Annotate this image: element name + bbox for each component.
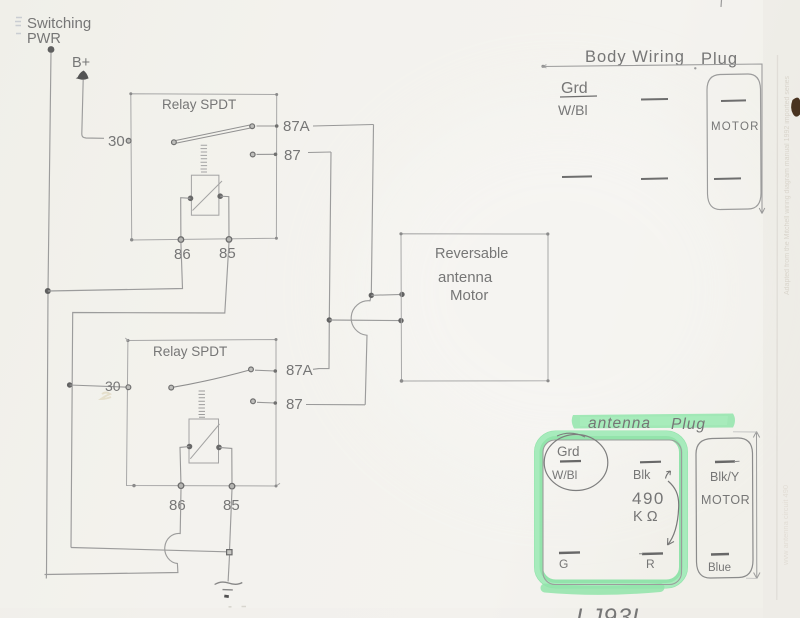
scan artifact: faint rotated text right margin bbox=[784, 75, 791, 295]
wire: stub B to motor box bbox=[371, 293, 402, 296]
relay2 pin 85 bbox=[229, 483, 235, 489]
relay2 coil box bbox=[189, 419, 219, 463]
svg-text:B+: B+ bbox=[72, 55, 90, 71]
pin dash G bbox=[559, 551, 580, 554]
svg-text:Blk/Y: Blk/Y bbox=[710, 470, 740, 484]
svg-text:Relay SPDT: Relay SPDT bbox=[162, 97, 236, 112]
relay1 switch arm (double stroke) bbox=[174, 125, 253, 144]
svg-text:antenna: antenna bbox=[588, 415, 651, 432]
body plug pin dash middle-bottom bbox=[641, 177, 668, 180]
B+ arrowhead bbox=[76, 71, 89, 80]
pencil rounded square inside green bbox=[543, 440, 682, 585]
svg-text:PWR: PWR bbox=[27, 31, 61, 47]
green highlighter strip behind title bbox=[572, 414, 735, 429]
relay2 coil left pin + bracket bbox=[187, 444, 193, 450]
relay1 coil diagonal bbox=[193, 181, 223, 211]
wire: relay1 87A to wire B bbox=[313, 125, 374, 127]
relay1 contact 87 bbox=[250, 152, 255, 157]
scan artifact: dark blob right edge bbox=[791, 98, 800, 117]
wire: relay1 87 to wire A bbox=[308, 151, 331, 154]
relay1 arm pivot bbox=[172, 140, 177, 145]
relay1 coil spring bbox=[201, 145, 208, 172]
svg-text:Switching: Switching bbox=[27, 15, 91, 32]
pencil circle around Grd/W-Bl bbox=[544, 435, 608, 491]
svg-text:LJ93L: LJ93L bbox=[576, 604, 646, 618]
section border: top + right with arrow ticks bbox=[542, 64, 762, 214]
relay1 pin 86 bbox=[178, 237, 184, 243]
svg-text:Plug: Plug bbox=[701, 50, 738, 68]
svg-text:MOTOR: MOTOR bbox=[701, 493, 750, 507]
relay1 contact 30 bbox=[126, 138, 131, 143]
curved arrow from Blk down to R pin bbox=[668, 481, 679, 545]
pin dash R bbox=[642, 552, 663, 555]
wire A: relay1 87 down to relay2 87A bbox=[319, 152, 331, 369]
svg-text:R: R bbox=[646, 557, 655, 571]
dimension line right of antenna plug bbox=[756, 433, 758, 578]
svg-text:wvw antenna circuit 490: wvw antenna circuit 490 bbox=[781, 485, 790, 566]
body plug pin dash middle-top bbox=[641, 98, 668, 101]
relay1 87 stub to box edge bbox=[257, 153, 276, 155]
relay 1 box bbox=[131, 94, 277, 240]
relay1 coil left pin + bracket bbox=[188, 196, 194, 202]
relay2 coil diagonal bbox=[190, 424, 219, 459]
faint crease line right margin bbox=[776, 55, 779, 600]
svg-text:Adapted from the Mitchell wiri: Adapted from the Mitchell wiring diagram… bbox=[784, 75, 791, 295]
svg-text:W/Bl: W/Bl bbox=[558, 102, 588, 118]
relay2 switch arm bbox=[171, 370, 251, 388]
svg-text:Motor: Motor bbox=[450, 287, 488, 304]
junction dot wire B at motor stub bbox=[369, 293, 374, 298]
relay2 87A stub bbox=[255, 369, 275, 372]
relay2 arm pivot bbox=[169, 385, 174, 390]
ground symbol bbox=[215, 582, 243, 584]
svg-text:Plug: Plug bbox=[671, 416, 706, 433]
wire: relay2 87 label to wire B bottom bbox=[306, 404, 365, 406]
svg-text:86: 86 bbox=[169, 497, 186, 514]
pin dash above Blk bbox=[640, 461, 661, 464]
svg-text:Grd: Grd bbox=[557, 444, 580, 459]
tiny pencil dot under Plug title bbox=[694, 67, 696, 69]
motor box bbox=[401, 234, 548, 381]
svg-text:87A: 87A bbox=[286, 362, 313, 379]
svg-text:W/Bl: W/Bl bbox=[552, 468, 577, 482]
svg-text:K Ω: K Ω bbox=[633, 509, 658, 525]
small arrow hook near Blk bbox=[666, 471, 671, 479]
green highlighted square (antenna plug body) bbox=[539, 435, 684, 584]
relay1 pin 85 bbox=[226, 237, 232, 243]
wire: relay1 pin86 down to left bus bbox=[48, 243, 183, 292]
relay1 contact 87A bbox=[250, 124, 255, 129]
junction dot on left bus at y291 bbox=[45, 288, 51, 294]
wire: relay2 pin86 down with hop over y548 rail, then left to bus bbox=[45, 489, 182, 575]
wire: ground stem bbox=[228, 556, 229, 582]
node dot: switching PWR bbox=[48, 46, 55, 53]
pin dash top (antenna motor) bbox=[715, 460, 735, 463]
relay2 87 stub bbox=[257, 401, 275, 404]
svg-text:87: 87 bbox=[284, 147, 301, 164]
svg-text:Body Wiring: Body Wiring bbox=[585, 48, 685, 66]
svg-text:490: 490 bbox=[632, 489, 665, 508]
svg-text:85: 85 bbox=[219, 245, 236, 262]
relay2 contact 87 bbox=[251, 399, 256, 404]
svg-text:Relay SPDT: Relay SPDT bbox=[153, 344, 227, 359]
relay2 coil spring bbox=[198, 391, 205, 417]
relay2 contact 87A bbox=[249, 367, 254, 372]
svg-text:antenna: antenna bbox=[438, 269, 493, 286]
tiny mark top edge bbox=[720, 0, 723, 7]
wire: relay1 pin85 down, left, down to y548 rail bbox=[71, 243, 229, 548]
pin dash bottom (antenna motor) bbox=[711, 553, 729, 556]
relay1 coil right pin + bracket bbox=[217, 193, 223, 199]
wire: far-left vertical bus from switching PWR bbox=[46, 53, 51, 579]
wire B: relay1 87A down to relay2 87, hop over A-to-motor wire bbox=[351, 125, 373, 405]
relay1 87A stub to box edge bbox=[257, 125, 277, 127]
relay1 coil box bbox=[191, 175, 219, 215]
relay2 contact 30 bbox=[126, 385, 131, 390]
svg-text:MOTOR: MOTOR bbox=[711, 121, 760, 133]
motor connector rounded outline bbox=[707, 74, 761, 210]
svg-text:Blk: Blk bbox=[633, 468, 651, 482]
junction dot on x71 wire at relay2-30 level bbox=[67, 382, 72, 387]
motor connector pin dash top bbox=[721, 99, 746, 102]
wire: y548 rail from x71 to ground junction bbox=[71, 548, 227, 552]
svg-text:Grd: Grd bbox=[561, 80, 588, 97]
wire: B+ to relay1 30 bbox=[82, 80, 104, 139]
relay2 top-left corner tick bbox=[125, 338, 128, 341]
relay 2 box bbox=[127, 340, 277, 487]
faint smudges below ground bbox=[229, 606, 247, 608]
relay2 coil right pin + bracket bbox=[216, 445, 222, 451]
wire: A to motor box bbox=[329, 319, 401, 322]
svg-text:87A: 87A bbox=[283, 118, 310, 135]
svg-text:30: 30 bbox=[108, 133, 125, 150]
svg-text:30: 30 bbox=[105, 378, 121, 394]
motor connector pin dash bottom bbox=[714, 177, 741, 180]
pin dash under Grd bbox=[560, 460, 581, 463]
svg-text:Blue: Blue bbox=[708, 562, 731, 574]
relay2 pin 86 bbox=[178, 483, 184, 489]
svg-text:Reversable: Reversable bbox=[435, 246, 508, 262]
ground junction square node bbox=[227, 550, 232, 555]
junction dot wire A at motor stub bbox=[327, 317, 332, 322]
scan artifact: faint vertical marks top-left edge bbox=[15, 18, 22, 34]
svg-text:G: G bbox=[559, 557, 568, 571]
svg-text:87: 87 bbox=[286, 396, 303, 413]
body plug pin dash left-bottom bbox=[562, 175, 592, 178]
wire: relay2 87A label to wire A bottom bbox=[313, 368, 319, 371]
wire: branch to relay2 contact 30 bbox=[70, 385, 129, 387]
faint erased scribble under 30 label bbox=[101, 393, 111, 400]
antenna motor connector (right pencil rounded rect) bbox=[696, 438, 753, 578]
svg-text:86: 86 bbox=[174, 246, 191, 263]
wire: relay2 pin85 down to ground junction bbox=[230, 489, 233, 551]
